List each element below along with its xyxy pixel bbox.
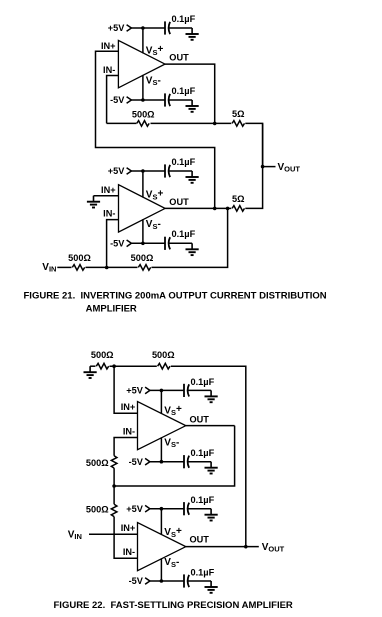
svg-text:0.1µF: 0.1µF <box>172 14 196 24</box>
svg-text:500Ω: 500Ω <box>91 350 114 360</box>
svg-text:-5V: -5V <box>129 457 144 467</box>
svg-text:FIGURE 21. INVERTING 200mA OU: FIGURE 21. INVERTING 200mA OUTPUT CURREN… <box>24 290 327 301</box>
svg-text:+5V: +5V <box>108 166 125 176</box>
svg-text:FIGURE 22. FAST-SETTLING PREC: FIGURE 22. FAST-SETTLING PRECISION AMPLI… <box>54 600 293 611</box>
svg-text:0.1µF: 0.1µF <box>172 229 196 239</box>
svg-text:IN-: IN- <box>103 209 115 219</box>
svg-text:OUT: OUT <box>169 53 189 63</box>
svg-text:5Ω: 5Ω <box>232 109 244 119</box>
svg-text:0.1µF: 0.1µF <box>191 377 215 387</box>
svg-text:IN+: IN+ <box>101 41 116 51</box>
svg-text:+5V: +5V <box>126 504 143 514</box>
svg-text:OUT: OUT <box>169 197 189 207</box>
svg-text:-5V: -5V <box>129 576 144 586</box>
svg-text:VIN: VIN <box>68 529 82 541</box>
svg-text:500Ω: 500Ω <box>86 505 109 515</box>
svg-text:VOUT: VOUT <box>278 162 301 174</box>
svg-text:IN-: IN- <box>123 426 135 436</box>
svg-text:IN-: IN- <box>123 547 135 557</box>
svg-text:500Ω: 500Ω <box>152 350 175 360</box>
svg-text:IN+: IN+ <box>121 402 136 412</box>
svg-text:+5V: +5V <box>126 386 143 396</box>
svg-text:IN-: IN- <box>103 65 115 75</box>
svg-text:0.1µF: 0.1µF <box>191 448 215 458</box>
svg-text:-5V: -5V <box>110 239 125 249</box>
svg-text:500Ω: 500Ω <box>132 109 155 119</box>
svg-text:-5V: -5V <box>110 95 125 105</box>
svg-text:IN+: IN+ <box>121 523 136 533</box>
svg-text:0.1µF: 0.1µF <box>172 157 196 167</box>
svg-text:OUT: OUT <box>190 414 210 424</box>
svg-text:0.1µF: 0.1µF <box>191 567 215 577</box>
svg-text:500Ω: 500Ω <box>86 458 109 468</box>
svg-text:5Ω: 5Ω <box>232 194 244 204</box>
svg-text:0.1µF: 0.1µF <box>191 495 215 505</box>
svg-text:500Ω: 500Ω <box>131 253 154 263</box>
svg-text:AMPLIFIER: AMPLIFIER <box>86 303 137 314</box>
svg-text:IN+: IN+ <box>101 185 116 195</box>
svg-text:500Ω: 500Ω <box>68 253 91 263</box>
svg-text:+5V: +5V <box>108 23 125 33</box>
svg-text:0.1µF: 0.1µF <box>172 86 196 96</box>
svg-text:VOUT: VOUT <box>262 542 285 554</box>
svg-text:VIN: VIN <box>42 262 56 274</box>
svg-text:OUT: OUT <box>190 534 210 544</box>
